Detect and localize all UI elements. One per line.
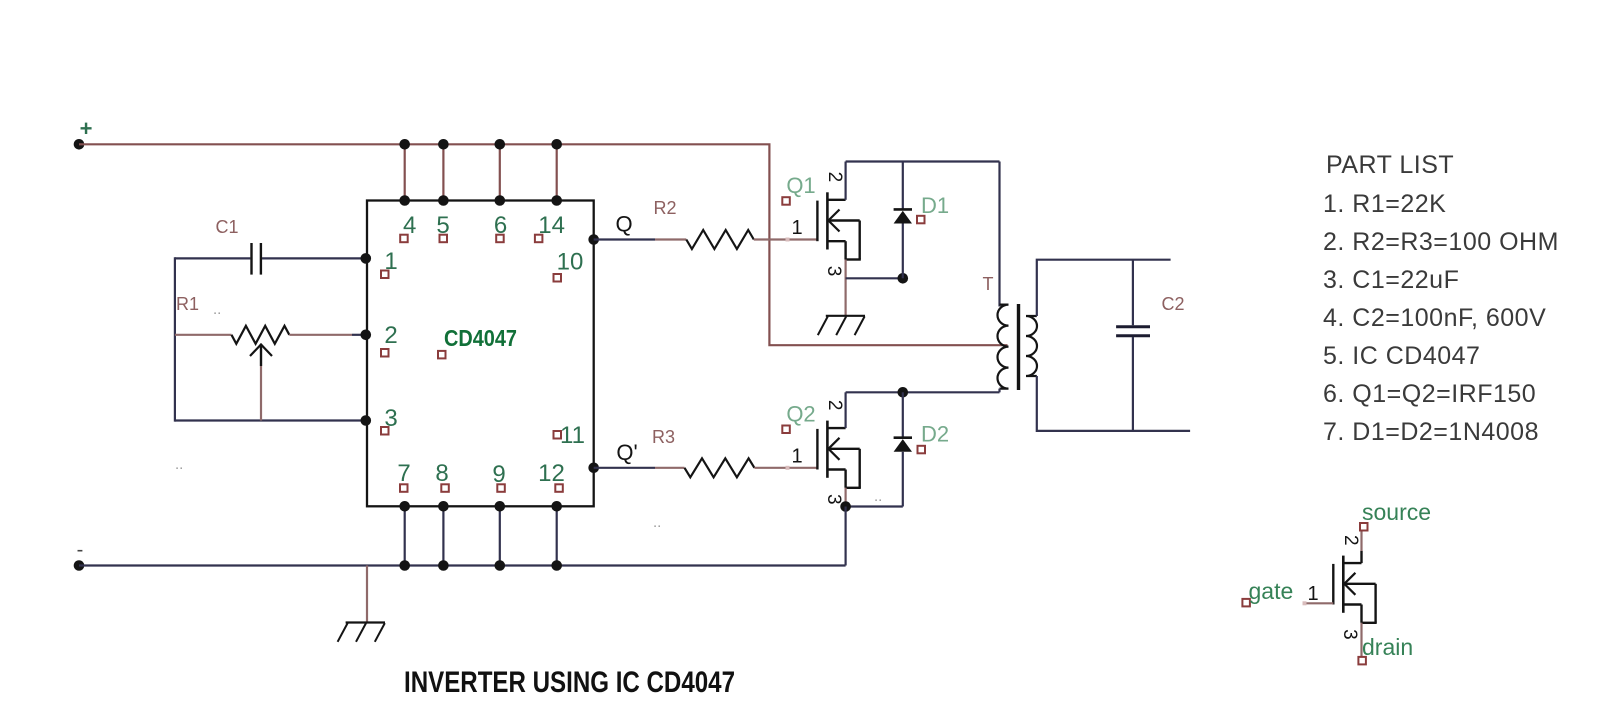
wire Q' to R3 (594, 467, 655, 469)
resistor R1 (232, 326, 290, 344)
diode D1 (902, 162, 904, 210)
junction rail dots (399, 139, 410, 150)
part list text (1323, 151, 1559, 446)
svg-text:R2: R2 (653, 198, 676, 218)
svg-text:PART LIST: PART LIST (1326, 151, 1454, 179)
svg-text:+: + (80, 116, 93, 141)
wire Q2 drain to transformer (846, 391, 1000, 393)
wire Q1 drain to transformer (846, 160, 1000, 162)
svg-text:INVERTER USING IC CD4047: INVERTER USING IC CD4047 (404, 666, 735, 699)
svg-text:4. C2=100nF, 600V: 4. C2=100nF, 600V (1323, 304, 1546, 332)
wire left vertical (174, 257, 176, 421)
wire Q1 source to D1 (846, 277, 903, 279)
wire Q2 source to D2 (846, 505, 903, 507)
wire primary bottom lead (998, 389, 1000, 393)
svg-text:Q1: Q1 (786, 173, 815, 198)
svg-text:1. R1=22K: 1. R1=22K (1323, 190, 1446, 218)
svg-text:7. D1=D2=1N4008: 7. D1=D2=1N4008 (1323, 418, 1539, 446)
capacitor C2 (1132, 260, 1134, 326)
svg-text:12: 12 (538, 460, 565, 487)
svg-text:8: 8 (435, 460, 448, 487)
wire secondary top (1037, 260, 1171, 316)
op-amp U1 IC CD4047 body (367, 201, 594, 507)
svg-text:source: source (1362, 499, 1431, 525)
wire pin9 drop (499, 506, 501, 565)
wire wiper to pin3 net (260, 366, 262, 421)
wire rail drop to pin 4 (404, 144, 406, 200)
svg-text:2: 2 (824, 400, 845, 411)
svg-text:2: 2 (824, 172, 845, 183)
wire rail drop to pin 14 (556, 144, 558, 200)
legend pin 2 lead (1360, 531, 1362, 551)
svg-text:Q: Q (615, 212, 632, 237)
wire Q2 drain up (844, 392, 846, 428)
svg-text:C2: C2 (1161, 294, 1184, 314)
transformer core (1017, 304, 1020, 390)
svg-text:D1: D1 (921, 193, 949, 218)
node Q junction (588, 234, 599, 245)
wire Q2 source to minus rail (844, 507, 846, 566)
svg-text:R1: R1 (176, 294, 199, 314)
transformer T primary coil (998, 305, 1009, 389)
wire pin12 drop (556, 506, 558, 565)
node - terminal (74, 560, 85, 571)
svg-text:Q': Q' (616, 440, 637, 465)
svg-text:2: 2 (384, 322, 397, 349)
junction pin2 (361, 330, 372, 341)
svg-text:2. R2=R3=100 OHM: 2. R2=R3=100 OHM (1323, 228, 1559, 256)
mark Q1 gate pin end (786, 238, 790, 242)
svg-text:1: 1 (791, 445, 802, 467)
diode D2 (902, 392, 904, 437)
wire pin8 drop (442, 506, 444, 565)
transistor Q1 (817, 192, 860, 259)
resistor R3 (685, 458, 755, 477)
svg-text:3: 3 (1339, 629, 1360, 640)
svg-text:3: 3 (823, 494, 844, 505)
junction pin1 (361, 253, 372, 264)
junction Q2 source (840, 501, 851, 512)
wire R2 to Q1 gate (754, 238, 818, 240)
wire top to transformer primary (998, 162, 1000, 307)
ground main (338, 623, 385, 642)
svg-text:R3: R3 (652, 427, 675, 447)
svg-text:T: T (983, 274, 994, 294)
wire C1 right to pin1 (262, 257, 367, 259)
svg-text:C1: C1 (215, 217, 238, 237)
wire Q2 source lead (844, 488, 846, 507)
transistor Q2 (817, 421, 860, 488)
wire rail drop to pin 5 (442, 144, 444, 200)
junction minus rail dots (399, 560, 410, 571)
svg-text:6. Q1=Q2=IRF150: 6. Q1=Q2=IRF150 (1323, 380, 1536, 408)
svg-text:2: 2 (1340, 535, 1361, 546)
svg-text:3: 3 (823, 266, 844, 277)
wire -V rail (79, 564, 846, 566)
transformer T secondary coil (1026, 316, 1037, 376)
ground Q1 source (818, 316, 865, 335)
svg-text:..: .. (213, 301, 221, 318)
junction IC top dots (399, 195, 410, 206)
junction IC bottom dots (399, 501, 410, 512)
junction D1 anode (898, 273, 909, 284)
svg-text:..: .. (175, 456, 183, 473)
node + terminal (74, 139, 85, 150)
svg-text:5. IC CD4047: 5. IC CD4047 (1323, 342, 1480, 370)
svg-text:1: 1 (1307, 583, 1318, 605)
legend transistor symbol (1333, 551, 1376, 623)
svg-text:CD4047: CD4047 (444, 325, 517, 351)
legend gate lead (1305, 602, 1333, 604)
junction pin3 (361, 415, 372, 426)
wire R3 to Q2 gate (754, 467, 817, 469)
svg-text:..: .. (653, 514, 661, 531)
svg-text:1: 1 (791, 217, 802, 239)
capacitor C1 (250, 243, 252, 275)
svg-text:-: - (77, 539, 84, 561)
junction D2 top (898, 387, 909, 398)
svg-text:3. C1=22uF: 3. C1=22uF (1323, 266, 1459, 294)
wire pin3 horizontal (175, 419, 367, 421)
wire R1 to pin2 (352, 334, 367, 336)
svg-text:D2: D2 (921, 421, 949, 446)
R1 wiper arrow (250, 345, 272, 357)
svg-text:11: 11 (560, 422, 585, 449)
wire +V rail (79, 144, 1008, 345)
legend pin 3 lead (1360, 623, 1362, 657)
wire pin7 drop (404, 506, 406, 565)
wire R1 right lead (289, 334, 352, 336)
svg-text:drain: drain (1362, 634, 1413, 660)
wire Q to R2 (594, 238, 655, 240)
node Q' junction (588, 463, 599, 474)
svg-text:7: 7 (397, 460, 410, 487)
wire rail to ground (366, 566, 368, 623)
wire R1 left lead (175, 334, 232, 336)
wire rail drop to pin 6 (499, 144, 501, 200)
wire Q1 drain up (844, 162, 846, 200)
mark Q2 gate pin end (786, 466, 790, 470)
svg-text:..: .. (874, 488, 882, 505)
resistor R2 (686, 230, 754, 249)
wire secondary bottom (1037, 376, 1190, 431)
svg-text:Q2: Q2 (786, 401, 815, 426)
svg-text:10: 10 (557, 249, 584, 276)
svg-text:gate: gate (1249, 578, 1294, 604)
wire pin1 to C1 left (175, 257, 251, 259)
wire Q1 source lead (844, 260, 846, 316)
